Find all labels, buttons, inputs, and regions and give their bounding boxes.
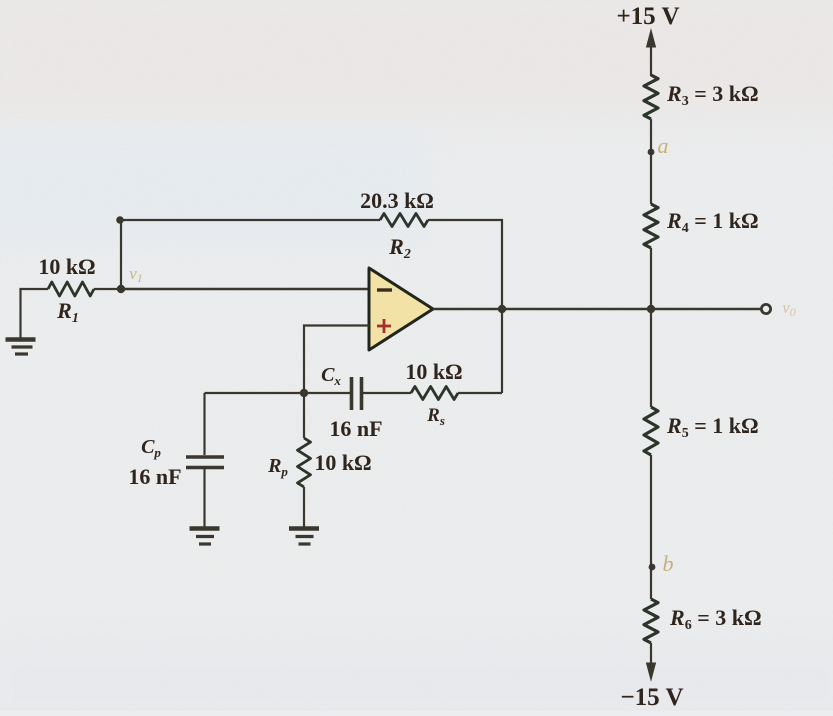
wire R4 to output node — [650, 248, 652, 309]
wire lower net left segment — [205, 392, 305, 394]
resistor R5 — [644, 407, 658, 455]
wire feedback left segment — [120, 219, 380, 221]
node output junction at feedback — [498, 305, 506, 313]
wire R5 to node b — [650, 455, 652, 567]
ground (input branch) — [6, 340, 36, 355]
svg-text:20.3 kΩ: 20.3 kΩ — [360, 188, 434, 213]
svg-text:R4 = 1 kΩ: R4 = 1 kΩ — [666, 208, 759, 236]
svg-text:R6 = 3 kΩ: R6 = 3 kΩ — [669, 605, 762, 633]
wire feedback right segment down to output node — [428, 220, 502, 309]
node b — [649, 564, 656, 571]
capacitor Cx — [352, 377, 362, 410]
svg-text:+15 V: +15 V — [616, 3, 679, 30]
svg-text:b: b — [663, 551, 674, 576]
resistor R6 — [644, 599, 658, 643]
wire Cp to ground — [203, 468, 205, 528]
op-amp U1 — [369, 268, 433, 350]
wire output node down to Rs — [501, 309, 503, 393]
wire v1 to op-amp inverting input — [121, 288, 369, 291]
wire junction down to Rp — [303, 393, 305, 438]
svg-text:16 nF: 16 nF — [329, 416, 382, 441]
svg-text:10 kΩ: 10 kΩ — [314, 450, 371, 475]
capacitor Cp — [186, 457, 224, 468]
wire junction down to Cp — [203, 393, 205, 455]
ground (Rp branch) — [289, 529, 319, 545]
svg-text:R5 = 1 kΩ: R5 = 1 kΩ — [666, 413, 759, 441]
node rail-output junction — [647, 305, 655, 313]
ground (Cp branch) — [190, 529, 220, 545]
svg-text:a: a — [658, 133, 669, 158]
supply -15 V arrow — [647, 643, 656, 680]
resistor R1 — [48, 282, 94, 296]
wire Rp to ground — [303, 487, 305, 527]
node v1 junction — [117, 285, 125, 293]
wire R3 to node a — [650, 119, 652, 152]
node a — [648, 149, 655, 156]
wire R1 to node v1 — [94, 288, 121, 290]
node Cx / Rp junction — [300, 389, 308, 397]
svg-text:16 nF: 16 nF — [128, 464, 181, 489]
resistor R3 — [644, 75, 658, 119]
resistor R4 — [644, 204, 658, 248]
wire ground to R1 — [21, 289, 49, 338]
supply +15 V arrow — [647, 30, 656, 76]
wire junction to Cx — [304, 392, 350, 394]
svg-text:−15 V: −15 V — [620, 684, 683, 711]
wire Cx to Rs — [362, 392, 412, 394]
terminal vo — [761, 304, 770, 313]
resistor R2 — [380, 214, 428, 227]
wire node a to R4 — [650, 152, 652, 204]
wire op-amp output to terminal — [433, 308, 761, 311]
wire node v1 up to feedback corner — [120, 220, 122, 289]
svg-text:10 kΩ: 10 kΩ — [38, 254, 95, 279]
junction feedback corner — [116, 216, 124, 224]
svg-text:R3 = 3 kΩ: R3 = 3 kΩ — [666, 81, 759, 109]
resistor Rp — [298, 438, 311, 487]
resistor Rs — [411, 387, 458, 400]
wire op-amp noninverting input — [304, 326, 369, 394]
wire rail down to R5 — [650, 309, 652, 407]
svg-text:10 kΩ: 10 kΩ — [405, 359, 462, 384]
wire node b to R6 — [650, 567, 652, 599]
wire Rs to corner — [458, 392, 502, 394]
